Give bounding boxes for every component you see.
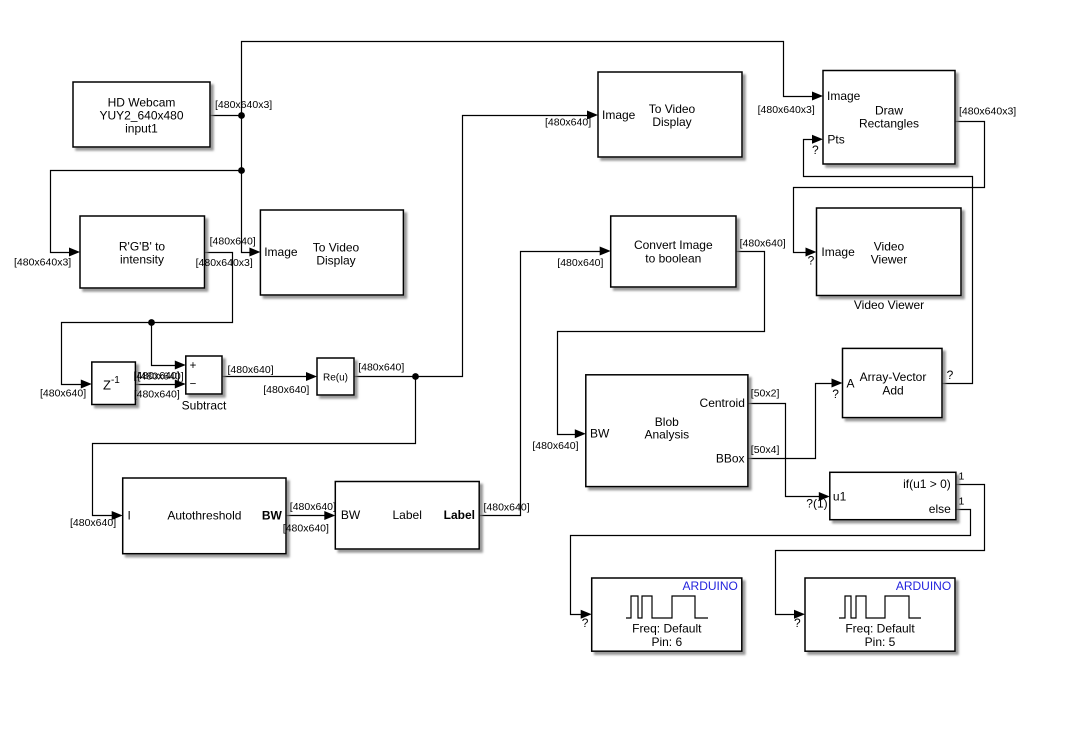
svg-text:BBox: BBox bbox=[716, 452, 745, 466]
svg-text:?: ? bbox=[832, 387, 839, 401]
svg-text:Pin: 6: Pin: 6 bbox=[651, 635, 682, 649]
svg-text:1: 1 bbox=[959, 496, 965, 508]
svg-text:To Video: To Video bbox=[313, 241, 360, 255]
svg-text:−: − bbox=[190, 379, 197, 391]
svg-text:Viewer: Viewer bbox=[871, 253, 907, 267]
svg-text:[480x640]: [480x640] bbox=[210, 235, 256, 247]
svg-text:else: else bbox=[929, 502, 951, 516]
svg-text:input1: input1 bbox=[125, 122, 158, 136]
svg-text:BW: BW bbox=[262, 508, 283, 522]
svg-text:[480x640]: [480x640] bbox=[358, 362, 404, 374]
svg-text:?(1): ?(1) bbox=[806, 497, 827, 511]
svg-text:[480x640]: [480x640] bbox=[545, 116, 591, 128]
svg-text:Re(u): Re(u) bbox=[323, 372, 348, 383]
svg-text:Video Viewer: Video Viewer bbox=[854, 298, 924, 312]
svg-text:[480x640x3]: [480x640x3] bbox=[196, 257, 253, 269]
svg-text:?: ? bbox=[808, 254, 815, 268]
svg-text:?: ? bbox=[794, 616, 801, 630]
svg-text:[480x640]: [480x640] bbox=[740, 237, 786, 249]
svg-text:Add: Add bbox=[882, 384, 903, 398]
svg-text:[480x640]: [480x640] bbox=[40, 388, 86, 400]
svg-text:Pin: 5: Pin: 5 bbox=[865, 635, 896, 649]
svg-text:ARDUINO: ARDUINO bbox=[896, 579, 951, 593]
svg-text:[480x640]: [480x640] bbox=[263, 384, 309, 396]
svg-text:[50x4]: [50x4] bbox=[751, 444, 780, 456]
svg-text:Array-Vector: Array-Vector bbox=[860, 370, 927, 384]
svg-text:?: ? bbox=[947, 368, 954, 382]
svg-text:[50x2]: [50x2] bbox=[751, 387, 780, 399]
svg-text:Image: Image bbox=[827, 89, 861, 103]
svg-text:[480x640x3]: [480x640x3] bbox=[14, 257, 71, 269]
svg-text:R'G'B' to: R'G'B' to bbox=[119, 240, 166, 254]
svg-text:I: I bbox=[128, 508, 131, 522]
svg-text:+: + bbox=[190, 360, 197, 372]
svg-text:[480x640x3]: [480x640x3] bbox=[215, 99, 272, 111]
svg-text:[480x640]: [480x640] bbox=[70, 517, 116, 529]
svg-text:?: ? bbox=[582, 616, 589, 630]
svg-text:Display: Display bbox=[316, 254, 355, 268]
svg-text:Freq: Default: Freq: Default bbox=[632, 622, 702, 636]
svg-text:Image: Image bbox=[264, 245, 298, 259]
svg-text:Freq: Default: Freq: Default bbox=[845, 622, 915, 636]
svg-text:Centroid: Centroid bbox=[700, 396, 745, 410]
svg-text:Image: Image bbox=[602, 108, 636, 122]
svg-text:Pts: Pts bbox=[827, 132, 844, 146]
svg-text:1: 1 bbox=[959, 470, 965, 482]
svg-text:[480x640]: [480x640] bbox=[228, 364, 274, 376]
svg-text:Display: Display bbox=[652, 115, 691, 129]
svg-text:BW: BW bbox=[590, 427, 610, 441]
svg-text:Label: Label bbox=[444, 508, 475, 522]
svg-text:A: A bbox=[847, 377, 855, 391]
svg-text:[480x640]: [480x640] bbox=[134, 389, 180, 401]
svg-text:Analysis: Analysis bbox=[644, 428, 689, 442]
svg-text:Rectangles: Rectangles bbox=[859, 117, 919, 131]
svg-text:to boolean: to boolean bbox=[645, 252, 701, 266]
svg-text:HD Webcam: HD Webcam bbox=[108, 96, 176, 110]
svg-text:Subtract: Subtract bbox=[182, 399, 227, 413]
svg-text:YUY2_640x480: YUY2_640x480 bbox=[99, 109, 183, 123]
svg-text:Video: Video bbox=[874, 240, 905, 254]
svg-text:[480x640x3]: [480x640x3] bbox=[758, 104, 815, 116]
svg-text:[480x640]: [480x640] bbox=[290, 501, 336, 513]
svg-text:u1: u1 bbox=[833, 490, 847, 504]
svg-text:Convert Image: Convert Image bbox=[634, 238, 713, 252]
svg-text:[480x640]: [480x640] bbox=[557, 257, 603, 269]
svg-text:[480x640]: [480x640] bbox=[283, 523, 329, 535]
svg-text:Image: Image bbox=[821, 245, 855, 259]
svg-text:[480x640x3]: [480x640x3] bbox=[959, 106, 1016, 118]
svg-text:To Video: To Video bbox=[649, 102, 696, 116]
svg-text:intensity: intensity bbox=[120, 253, 164, 267]
svg-text:ARDUINO: ARDUINO bbox=[683, 579, 738, 593]
svg-text:Autothreshold: Autothreshold bbox=[167, 508, 241, 522]
svg-text:[480x640]: [480x640] bbox=[532, 440, 578, 452]
svg-text:?: ? bbox=[812, 143, 819, 157]
svg-text:Label: Label bbox=[393, 508, 422, 522]
svg-text:if(u1 > 0): if(u1 > 0) bbox=[903, 477, 951, 491]
svg-text:Draw: Draw bbox=[875, 104, 903, 118]
svg-text:[480x640]: [480x640] bbox=[484, 502, 530, 514]
svg-text:BW: BW bbox=[341, 508, 361, 522]
svg-text:[480x640]: [480x640] bbox=[138, 370, 184, 382]
